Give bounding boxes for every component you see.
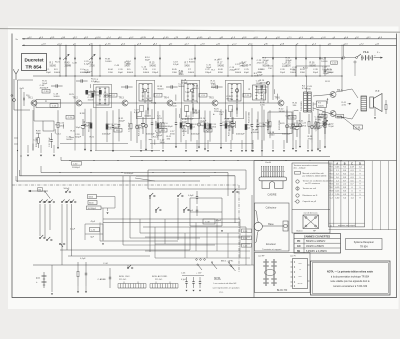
svg-text:numéro est antérieur à 7.001: numéro est antérieur à 7.001.349	[333, 285, 368, 288]
svg-text:Tension en volt: Tension en volt	[303, 187, 317, 190]
capacitor coupling c4	[211, 86, 216, 88]
svg-text:C.44: C.44	[103, 263, 108, 265]
svg-text:50pF: 50pF	[145, 60, 151, 62]
svg-text:8,2µF: 8,2µF	[91, 81, 97, 83]
svg-text:0,1µF: 0,1µF	[84, 63, 90, 65]
wire left corner join	[32, 144, 34, 151]
wire cap cluster	[190, 197, 222, 199]
svg-text:TR.2: TR.2	[73, 97, 79, 100]
panel divider	[253, 161, 255, 298]
capacitor coupling c2	[121, 86, 126, 88]
switch S3c	[59, 243, 61, 245]
legend row resistor	[295, 172, 301, 175]
svg-text:4700: 4700	[170, 134, 176, 136]
svg-text:R.36: R.36	[310, 63, 316, 65]
svg-text:R.12: R.12	[263, 63, 269, 65]
wire loop verticals	[122, 176, 124, 245]
border frame	[12, 34, 397, 298]
hf block right drawing	[293, 259, 308, 289]
svg-text:2200: 2200	[260, 105, 266, 107]
svg-text:C.ADRE: C.ADRE	[98, 278, 107, 281]
svg-text:R.21: R.21	[55, 124, 60, 126]
svg-text:40000pF: 40000pF	[102, 134, 111, 136]
switch bottom PO	[196, 259, 198, 261]
svg-text:Transistor et support: Transistor et support	[262, 248, 281, 251]
svg-text:0,5µF: 0,5µF	[188, 195, 194, 197]
wire lower-right links	[250, 264, 254, 266]
FI3 interior parts	[229, 106, 233, 112]
page top edge shadow	[0, 29, 400, 33]
svg-text:10000: 10000	[253, 132, 260, 134]
svg-text:R.17: R.17	[218, 63, 224, 65]
voltage table grid	[329, 161, 365, 227]
svg-text:C.26: C.26	[260, 91, 265, 93]
svg-text:1200: 1200	[108, 72, 114, 74]
svg-text:C.17 10µF: C.17 10µF	[49, 137, 51, 147]
switch S1b	[44, 201, 46, 203]
svg-text:à la documentation techniqu: à la documentation technique TR 854	[331, 275, 370, 278]
switch S2a	[149, 195, 151, 197]
svg-text:sur PO minimum: sur PO minimum	[305, 183, 320, 185]
mesh label boxes	[242, 229, 252, 233]
svg-text:200pF: 200pF	[229, 70, 236, 72]
svg-text:2200: 2200	[211, 127, 217, 129]
stage1 loop box	[43, 121, 54, 131]
node test point b	[191, 89, 194, 92]
pinout drawing	[254, 222, 262, 230]
svg-text:GO: GO	[297, 246, 301, 248]
svg-text:4700: 4700	[239, 65, 245, 67]
switch S3b	[46, 239, 48, 241]
svg-text:8,2µF: 8,2µF	[329, 126, 335, 128]
svg-text:GAMMES COUVERTES: GAMMES COUVERTES	[304, 235, 331, 238]
capacitor electrolytic 50µF	[232, 117, 234, 124]
misc wire stubs	[84, 121, 85, 122]
svg-text:54000: 54000	[150, 65, 157, 67]
svg-text:45µF: 45µF	[216, 220, 222, 222]
svg-text:TR.1: TR.1	[28, 97, 34, 100]
transformer T2 output	[361, 96, 367, 111]
svg-text:C.15: C.15	[142, 66, 147, 68]
svg-text:R.48 27000: R.48 27000	[248, 111, 250, 123]
svg-text:40000pF: 40000pF	[40, 88, 49, 90]
svg-text:C.24: C.24	[301, 123, 306, 125]
switch On-Off	[127, 267, 129, 269]
wire pile arrow	[374, 57, 382, 59]
svg-text:8,2µF: 8,2µF	[173, 64, 179, 66]
net AVC rail	[22, 44, 397, 46]
switch S1c	[49, 201, 51, 203]
capacitor coupling c1	[51, 85, 56, 87]
capacitor C39 25uF	[196, 206, 198, 210]
svg-text:8,2µF: 8,2µF	[302, 88, 308, 90]
svg-text:A: A	[336, 162, 338, 165]
svg-text:1300: 1300	[172, 72, 178, 74]
svg-text:C.19: C.19	[59, 123, 64, 125]
capacitor C31	[324, 58, 326, 68]
svg-text:34000: 34000	[188, 72, 195, 74]
svg-text:10000: 10000	[105, 61, 112, 63]
svg-text:R.8 1700Ω: R.8 1700Ω	[139, 126, 141, 136]
transistor TR.3	[122, 100, 128, 106]
svg-text:R.15: R.15	[150, 63, 156, 65]
svg-text:D: D	[359, 162, 361, 165]
switch S2b	[155, 209, 157, 211]
svg-text:PILE: PILE	[363, 50, 369, 54]
switch interrupter	[356, 57, 358, 59]
wire top bus	[33, 75, 342, 77]
wire feedback diag	[341, 116, 360, 131]
label box stack	[88, 195, 97, 199]
svg-text:Résistance en Ω: Résistance en Ω	[303, 194, 318, 197]
svg-text:5600: 5600	[36, 133, 42, 135]
svg-text:B: B	[344, 162, 346, 165]
svg-text:C: C	[351, 162, 353, 165]
svg-text:50pF: 50pF	[42, 83, 48, 85]
case bottom view box	[303, 215, 319, 229]
capacitor trio bottom	[186, 277, 188, 282]
capacitor bottom1	[85, 262, 87, 273]
switch S1e	[66, 201, 68, 203]
wire left vertical B	[20, 88, 22, 176]
svg-text:reste valable pour les apparei: reste valable pour les appareils dont le	[330, 280, 370, 283]
svg-text:500µF: 500µF	[64, 188, 71, 190]
svg-text:2200: 2200	[282, 66, 288, 68]
node test point c	[236, 89, 239, 92]
svg-text:100µF: 100µF	[328, 72, 334, 74]
svg-text:R.13 56000: R.13 56000	[156, 120, 158, 132]
svg-text:R.26 220: R.26 220	[313, 102, 315, 111]
svg-text:8,2µF: 8,2µF	[134, 112, 140, 114]
svg-text:TR.4: TR.4	[164, 97, 170, 100]
svg-text:10µF: 10µF	[76, 127, 82, 129]
svg-text:mesures sans signal: mesures sans signal	[338, 224, 356, 227]
net rail arrow	[22, 38, 24, 40]
svg-text:200pF: 200pF	[75, 137, 82, 139]
svg-text:Système Récepteur: Système Récepteur	[354, 241, 374, 244]
svg-text:R.14: R.14	[303, 68, 308, 70]
svg-text:200pF: 200pF	[181, 82, 188, 84]
wire supply drop group	[59, 45, 61, 76]
svg-text:par milliohms 20000 Ω/Volt: par milliohms 20000 Ω/Volt	[303, 174, 327, 177]
wire right drops	[341, 76, 343, 92]
svg-text:R.19: R.19	[315, 119, 320, 121]
svg-text:5600: 5600	[193, 88, 199, 90]
pinout box	[255, 203, 290, 251]
svg-text:9 V: 9 V	[36, 276, 40, 280]
svg-text:C.23: C.23	[185, 91, 190, 93]
legend row circle1	[296, 180, 299, 183]
svg-text:Mesuré et relié bloc volt: Mesuré et relié bloc volt	[303, 172, 325, 175]
battery 9V	[43, 272, 45, 288]
switch S1d	[61, 201, 63, 203]
svg-text:10000: 10000	[321, 61, 328, 63]
svg-text:54000: 54000	[143, 72, 150, 74]
capacitor electrolytic 10µF	[82, 119, 84, 126]
svg-text:56000: 56000	[310, 65, 317, 67]
node test point d	[267, 82, 270, 85]
svg-text:4700: 4700	[308, 139, 314, 141]
capacitor electrolytic 50µF	[187, 117, 189, 124]
title box Ducretet TR 854	[22, 54, 47, 71]
svg-text:0,1µF: 0,1µF	[181, 279, 187, 281]
svg-text:R.41: R.41	[299, 121, 304, 123]
svg-text:C.48: C.48	[72, 63, 77, 65]
capacitor C40	[203, 219, 215, 224]
capacitor CV1 tuning	[65, 45, 67, 76]
svg-text:R.25: R.25	[69, 94, 74, 96]
svg-text:10000: 10000	[146, 100, 153, 102]
transistor TR.7	[330, 92, 336, 98]
label C30 box	[72, 162, 82, 166]
svg-text:100µF: 100µF	[290, 128, 297, 130]
svg-text:200pF: 200pF	[156, 135, 163, 137]
legend row circle4	[296, 200, 299, 203]
wire bus y172	[41, 172, 228, 174]
svg-text:2200: 2200	[254, 75, 260, 77]
potentiometer R19 volume	[324, 112, 326, 119]
wire pile drop	[354, 64, 356, 77]
svg-text:5400: 5400	[125, 65, 131, 67]
svg-text:PO GO: PO GO	[119, 279, 126, 281]
svg-text:2200: 2200	[270, 135, 276, 137]
svg-text:3300: 3300	[300, 72, 306, 74]
net +9V rail	[22, 38, 397, 40]
capacitor C38 0,5uF	[196, 191, 198, 197]
wire battery leads	[51, 265, 53, 292]
transformer FI2	[184, 84, 197, 102]
svg-text:C.27 20µF: C.27 20µF	[268, 120, 270, 130]
svg-text:200pF: 200pF	[314, 129, 321, 131]
transistor TR.5	[212, 100, 218, 106]
svg-text:2700: 2700	[90, 65, 96, 67]
svg-text:vue HF: vue HF	[258, 256, 265, 258]
wire stage left drop	[32, 110, 34, 151]
capacitor C17 stage1	[51, 133, 53, 140]
FI1 interior parts	[140, 106, 144, 112]
svg-text:90000: 90000	[192, 112, 199, 114]
svg-text:50pF: 50pF	[211, 87, 217, 89]
wire collectors to OT	[336, 89, 352, 92]
svg-text:C.16 50pF: C.16 50pF	[129, 122, 131, 132]
svg-text:PO GO: PO GO	[155, 279, 162, 281]
capacitor electrolytic 50µF	[142, 117, 144, 124]
svg-text:54000: 54000	[218, 65, 225, 67]
wire left vertical A	[17, 80, 19, 182]
stage2 dark parts	[86, 90, 89, 95]
wire bus y180	[16, 180, 200, 182]
capacitor electrolytic 100µF	[296, 120, 298, 127]
svg-text:R.14: R.14	[153, 137, 158, 139]
svg-text:Emetteur: Emetteur	[266, 243, 276, 246]
svg-text:40000pF: 40000pF	[260, 82, 269, 84]
svg-text:50pF: 50pF	[182, 121, 188, 123]
svg-text:NOTA. — La présente édition re: NOTA. — La présente édition reliera noté…	[327, 271, 374, 274]
svg-text:56000: 56000	[235, 72, 242, 74]
wire bus left corner a	[32, 76, 34, 144]
svg-text:54000Ω: 54000Ω	[313, 126, 321, 128]
wire bus y156	[130, 156, 330, 158]
wire drop x96 extension	[95, 105, 97, 151]
switch S2d	[183, 209, 185, 211]
svg-text:TR.3: TR.3	[119, 97, 125, 100]
svg-text:Capacité en pF: Capacité en pF	[303, 200, 317, 203]
svg-text:200pF: 200pF	[285, 60, 292, 62]
component designator boxes	[42, 89, 50, 93]
svg-text:5600: 5600	[178, 74, 184, 76]
ground arrows stage1	[27, 145, 29, 153]
switch levers bottom	[212, 263, 217, 269]
svg-text:R.20: R.20	[192, 124, 197, 126]
svg-text:200pF: 200pF	[263, 60, 270, 62]
svg-text:10000: 10000	[88, 100, 95, 102]
svg-text:10000: 10000	[53, 96, 60, 98]
svg-text:R.18 27000: R.18 27000	[257, 118, 259, 130]
rail1 tick value labels	[27, 37, 29, 38]
legend row circle3	[296, 194, 299, 197]
svg-text:R.21: R.21	[55, 61, 60, 63]
legend box	[292, 163, 330, 233]
svg-text:C.50: C.50	[44, 91, 49, 93]
svg-text:BOB. OSC.: BOB. OSC.	[119, 276, 131, 278]
component forest group	[57, 110, 59, 122]
svg-text:90000: 90000	[157, 88, 164, 90]
capacitor CV2 tuning	[91, 45, 93, 76]
svg-text:40000pF: 40000pF	[146, 134, 155, 136]
svg-text:160kHz à 256kHz: 160kHz à 256kHz	[306, 246, 325, 248]
svg-text:0,1µF: 0,1µF	[80, 258, 86, 260]
svg-text:90000: 90000	[226, 98, 233, 100]
svg-text:30pF: 30pF	[46, 72, 52, 74]
wire bus y161	[61, 160, 342, 162]
capacitor C32 label	[319, 115, 327, 118]
svg-text:Boitier: Boitier	[297, 230, 303, 233]
svg-text:40000pF: 40000pF	[225, 121, 234, 123]
wire interstage base line	[37, 102, 76, 104]
svg-text:90µF: 90µF	[313, 72, 319, 74]
hf block left drawing	[265, 259, 267, 286]
svg-text:Vue A: Vue A	[265, 161, 271, 164]
svg-text:4,5µF: 4,5µF	[70, 229, 76, 231]
svg-text:50Ω/5: 50Ω/5	[318, 105, 324, 107]
svg-text:vue de dessous: vue de dessous	[303, 213, 317, 215]
label C10 box	[331, 61, 338, 64]
svg-text:TR 854: TR 854	[360, 246, 368, 248]
capacitor coupling c0	[76, 80, 81, 82]
capacitor coupling c3	[166, 86, 171, 88]
thermistor right	[374, 108, 376, 116]
svg-text:5600: 5600	[126, 63, 132, 65]
svg-text:40pF: 40pF	[244, 72, 250, 74]
capacitor antenna input	[23, 92, 25, 98]
mesh horizontals low	[145, 236, 250, 238]
resistor bottom1	[77, 262, 79, 271]
svg-text:4700: 4700	[257, 63, 263, 65]
inductor L osc PO-GO	[118, 287, 146, 289]
node test point a	[144, 89, 147, 92]
receiver label box	[346, 239, 383, 250]
svg-text:4700: 4700	[301, 126, 307, 128]
net rail2 arrow	[22, 44, 24, 46]
svg-text:R.18 2000: R.18 2000	[36, 137, 38, 147]
switch S3a	[39, 237, 41, 239]
wire bus y143	[60, 143, 128, 145]
svg-text:P.O.: P.O.	[220, 292, 224, 294]
svg-text:56000: 56000	[66, 139, 73, 141]
svg-text:R.6 12000: R.6 12000	[208, 122, 210, 132]
resistor R18 stage1	[37, 133, 39, 138]
detector coil box	[253, 85, 266, 100]
frame aerial drawing	[259, 177, 287, 181]
wire driver to bases	[313, 95, 330, 97]
wire pile feed	[262, 57, 356, 59]
transistor TR.4	[167, 100, 173, 106]
voltage table columns	[333, 161, 335, 227]
switch gang line	[12, 184, 239, 186]
node sw junction	[155, 211, 156, 212]
svg-text:45µF: 45µF	[91, 221, 96, 223]
svg-text:16.300pF: 16.300pF	[88, 208, 97, 210]
capacitor bottom2	[109, 268, 111, 277]
svg-text:190pF: 190pF	[205, 72, 212, 74]
svg-text:C.48: C.48	[285, 116, 290, 118]
switch lever mid	[45, 192, 50, 199]
svg-text:CADRE: CADRE	[267, 193, 276, 197]
svg-text:sont représentés en position: sont représentés en position	[213, 287, 241, 290]
svg-text:obs. - indiqué: obs. - indiqué	[294, 167, 307, 169]
transistor TR.1	[31, 100, 37, 106]
svg-text:40000pF: 40000pF	[164, 126, 173, 128]
svg-text:50000µF: 50000µF	[72, 167, 81, 169]
svg-text:4,7Ω: 4,7Ω	[342, 105, 347, 107]
svg-text:16.300µF: 16.300µF	[124, 173, 134, 175]
wire out top	[296, 65, 330, 67]
wire switch net a	[136, 175, 210, 177]
svg-text:C.28: C.28	[290, 117, 295, 119]
transformer FI3 enclosure	[225, 81, 244, 119]
svg-text:C.19: C.19	[211, 124, 216, 126]
legend row circle2	[296, 187, 299, 190]
svg-text:580kHz à 1605kHz: 580kHz à 1605kHz	[306, 241, 326, 243]
transistor TR.2	[76, 100, 82, 106]
transformer FI3	[228, 84, 241, 102]
svg-text:BLOC HF: BLOC HF	[277, 289, 288, 292]
svg-text:BOB. ACCORD: BOB. ACCORD	[152, 275, 168, 278]
inductor L acc	[150, 287, 178, 289]
transformer FI1	[139, 84, 152, 102]
svg-text:R.38: R.38	[80, 113, 85, 115]
svg-text:56000: 56000	[178, 86, 185, 88]
svg-text:5400: 5400	[185, 65, 191, 67]
svg-text:50pF: 50pF	[118, 72, 124, 74]
svg-text:TR 854: TR 854	[25, 64, 41, 70]
wire drop x75 extension	[74, 76, 76, 151]
svg-text:20µF: 20µF	[280, 72, 286, 74]
wire bus y150	[95, 150, 160, 152]
svg-text:200pF: 200pF	[119, 121, 126, 123]
FI2 interior parts	[185, 106, 189, 112]
potentiometer P2	[317, 101, 327, 107]
switch S2e	[232, 191, 234, 193]
svg-text:Collecteur: Collecteur	[266, 207, 277, 210]
wire diagonal feedback	[135, 178, 155, 181]
antenna	[15, 74, 17, 80]
svg-text:90000: 90000	[189, 62, 196, 64]
svg-text:C.48: C.48	[114, 65, 119, 67]
antenna jack node	[13, 99, 16, 102]
svg-text:C.16 50pF: C.16 50pF	[161, 121, 163, 131]
svg-text:2200: 2200	[172, 106, 178, 108]
